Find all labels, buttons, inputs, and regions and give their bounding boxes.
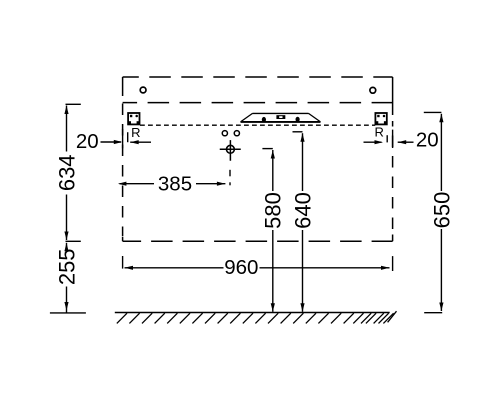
cabinet dashed outline right edge — [392, 77, 394, 241]
dimension 634 — [54, 104, 80, 241]
rail mounting dotted line — [140, 124, 375, 126]
dimension 650 — [424, 112, 455, 312]
mounting rail — [241, 113, 321, 122]
svg-text:960: 960 — [224, 256, 258, 279]
svg-text:20: 20 — [76, 130, 99, 153]
svg-text:385: 385 — [158, 173, 192, 196]
fixing hole circle left top — [140, 87, 146, 93]
cabinet dashed outline bottom edge — [123, 240, 393, 242]
bracket right — [375, 113, 386, 124]
drill point crosshair — [220, 140, 241, 185]
svg-text:640: 640 — [290, 192, 315, 229]
svg-text:634: 634 — [54, 154, 79, 191]
bracket left — [128, 113, 139, 124]
ground hatching — [117, 311, 397, 323]
svg-text:20: 20 — [416, 129, 439, 152]
svg-text:580: 580 — [261, 192, 286, 229]
dimension 20 left — [76, 129, 151, 153]
svg-text:R: R — [375, 125, 384, 140]
countertop underside dashed line — [123, 102, 393, 104]
cabinet dashed outline top edge — [123, 76, 393, 78]
svg-text:650: 650 — [429, 192, 454, 229]
dimension 960 — [123, 256, 393, 279]
ground line — [115, 312, 390, 314]
svg-text:R: R — [131, 125, 140, 140]
dimension 20 right — [364, 129, 439, 152]
dimension 255 — [50, 243, 86, 313]
dimension 580 — [261, 149, 286, 312]
fixing hole circle right top — [370, 87, 376, 93]
svg-text:255: 255 — [54, 248, 79, 285]
cabinet dashed outline left edge — [122, 77, 124, 241]
dimension 385 — [118, 173, 225, 196]
dimension 640 — [290, 132, 315, 312]
faucet holes pair — [222, 131, 227, 136]
